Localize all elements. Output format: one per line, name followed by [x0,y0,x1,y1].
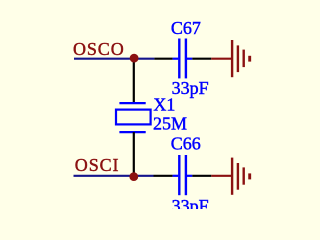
pin C66 right (black) [192,175,211,177]
svg-text:OSCO: OSCO [73,39,125,59]
svg-text:25M: 25M [153,114,187,134]
ground symbol bottom [232,158,250,195]
svg-text:C67: C67 [171,18,201,38]
pin X1 top (black) [133,58,135,102]
wire OSCO horizontal [74,58,154,60]
value 33pF (C67) [172,78,209,98]
svg-text:X1: X1 [153,95,175,115]
svg-text:33pF: 33pF [172,196,209,209]
designator X1 [153,95,175,115]
pin C67 right (black) [192,58,211,60]
svg-text:OSCI: OSCI [75,155,120,175]
net label OSCO [73,39,125,59]
designator C67 [171,18,201,38]
ground symbol top [232,40,250,77]
net label OSCI [75,155,120,175]
capacitor C67 [173,39,193,79]
pin X1 bottom (black) [133,132,135,176]
designator C66 [171,133,201,153]
svg-text:C66: C66 [171,133,201,153]
value 33pF (C66) [172,196,209,216]
crystal X1 [116,103,151,132]
pin C67 left (black) [154,58,172,60]
pin C66 left (black) [154,175,173,177]
junction node OSCI [129,172,138,181]
svg-text:33pF: 33pF [172,78,209,98]
value 25M [153,114,187,134]
junction node OSCO [130,54,139,63]
capacitor C66 [173,155,193,195]
ground pin top (maroon) [211,58,231,60]
ground pin bottom (maroon) [211,175,231,177]
wire OSCI horizontal [74,175,154,177]
